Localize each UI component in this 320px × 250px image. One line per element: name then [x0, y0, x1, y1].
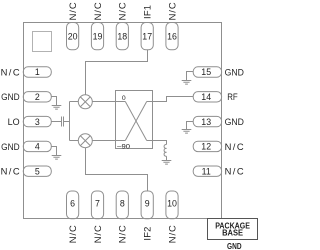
- svg-text:N/C: N/C: [225, 141, 244, 152]
- svg-text:N/C: N/C: [117, 2, 128, 20]
- svg-text:GND: GND: [225, 116, 245, 127]
- svg-text:10: 10: [167, 199, 177, 209]
- wire pin15 to ground: [187, 72, 194, 81]
- svg-text:N/C: N/C: [67, 225, 78, 243]
- svg-text:N/C: N/C: [1, 66, 20, 77]
- svg-text:GND: GND: [1, 91, 20, 102]
- svg-text:7: 7: [95, 199, 100, 209]
- svg-text:–90: –90: [117, 143, 130, 150]
- wire mixer M1 to hybrid: [92, 101, 115, 103]
- svg-text:BASE: BASE: [222, 228, 244, 237]
- pin 7 pad: [91, 191, 103, 219]
- pin 19 pad: [91, 23, 103, 50]
- svg-text:4: 4: [35, 142, 40, 152]
- svg-text:2: 2: [35, 92, 40, 102]
- wire inductor to ground: [166, 156, 168, 160]
- svg-text:0: 0: [122, 95, 126, 102]
- wire pin4 to ground: [51, 147, 56, 156]
- svg-text:N/C: N/C: [92, 2, 103, 20]
- svg-text:N/C: N/C: [1, 166, 20, 177]
- svg-text:5: 5: [35, 166, 40, 176]
- svg-text:13: 13: [201, 117, 211, 127]
- pin 2 pad: [23, 92, 51, 102]
- 90 degree hybrid coupler U1: [116, 91, 153, 149]
- ground at pin 4: [52, 156, 62, 160]
- pin 17 pad: [141, 23, 153, 50]
- pin 6 pad: [67, 191, 79, 219]
- pin 8 pad: [116, 191, 128, 219]
- ground at pin 15: [182, 81, 192, 85]
- svg-text:N/C: N/C: [166, 2, 177, 20]
- wire hybrid to inductor: [153, 141, 167, 145]
- svg-text:LO: LO: [8, 116, 20, 127]
- pin 1 indicator square: [33, 32, 52, 52]
- svg-text:GND: GND: [1, 141, 20, 152]
- pin 15 pad: [193, 67, 221, 77]
- wire capacitor to LO splitter column: [64, 121, 70, 123]
- capacitor C1 (LO coupling): [62, 117, 64, 127]
- pin 9 pad: [141, 191, 153, 219]
- svg-text:12: 12: [201, 142, 211, 152]
- svg-text:3: 3: [35, 117, 40, 127]
- svg-text:GND: GND: [225, 66, 245, 77]
- wire column to mixer M2: [70, 140, 79, 142]
- ground at inductor: [162, 161, 172, 165]
- svg-text:19: 19: [93, 31, 103, 41]
- svg-text:N/C: N/C: [225, 166, 244, 177]
- pin 4 pad: [23, 141, 51, 151]
- pin 14 pad: [193, 92, 221, 102]
- svg-text:15: 15: [201, 67, 211, 77]
- svg-text:20: 20: [68, 31, 78, 41]
- pin 10 pad: [166, 191, 178, 219]
- ground at pin 2: [52, 106, 62, 110]
- svg-text:N/C: N/C: [166, 225, 177, 243]
- svg-text:N/C: N/C: [92, 225, 103, 243]
- svg-text:6: 6: [70, 199, 75, 209]
- pin 16 pad: [166, 23, 178, 50]
- wire LO pin3 to capacitor: [51, 121, 61, 123]
- svg-text:RF: RF: [227, 91, 238, 102]
- pin 11 pad: [193, 166, 221, 176]
- svg-text:N/C: N/C: [117, 225, 128, 243]
- svg-text:16: 16: [167, 31, 177, 41]
- svg-text:N/C: N/C: [67, 2, 78, 20]
- pin 12 pad: [193, 141, 221, 151]
- pin 13 pad: [193, 116, 221, 126]
- svg-text:18: 18: [117, 31, 127, 41]
- svg-text:17: 17: [142, 31, 152, 41]
- pin 18 pad: [116, 23, 128, 50]
- wire LO splitter column: [69, 102, 71, 141]
- pin 20 pad: [67, 23, 79, 50]
- wire pin2 to ground: [51, 97, 56, 106]
- svg-text:11: 11: [202, 166, 211, 176]
- mixer M2 (bottom): [78, 134, 92, 148]
- pin 3 pad: [23, 116, 51, 126]
- ground at pin 13: [182, 130, 192, 134]
- wire pin13 to ground: [187, 122, 194, 130]
- pin 1 pad: [23, 67, 51, 77]
- wire column to mixer M1: [70, 101, 79, 103]
- inductor L1: [164, 144, 166, 156]
- package base note box: [208, 219, 258, 240]
- svg-text:8: 8: [120, 199, 125, 209]
- svg-text:1: 1: [35, 67, 40, 77]
- wire mixer M2 to hybrid: [92, 140, 115, 142]
- svg-text:14: 14: [201, 92, 211, 102]
- svg-text:GND: GND: [227, 242, 242, 250]
- svg-text:IF1: IF1: [142, 5, 153, 19]
- svg-text:9: 9: [145, 199, 150, 209]
- mixer M1 (top): [78, 95, 92, 109]
- wire IF1 pin17 to mixer M1: [86, 50, 148, 95]
- svg-text:IF2: IF2: [142, 227, 153, 241]
- chip outline: [24, 23, 222, 219]
- wire IF2 pin9 to mixer M2: [86, 148, 148, 191]
- wire hybrid to RF pin14: [153, 97, 194, 102]
- pin 5 pad: [23, 166, 51, 176]
